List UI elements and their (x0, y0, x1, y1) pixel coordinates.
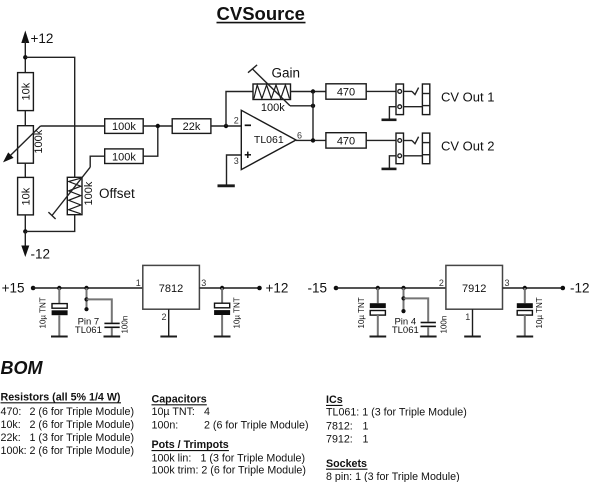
svg-text:3: 3 (234, 156, 239, 166)
capacitor C5 100n (404, 298, 449, 336)
resistor 10k (top) (18, 73, 34, 111)
svg-text:100n:: 100n: (152, 419, 179, 431)
wire (143, 125, 172, 127)
svg-text:Resistors (all 5% 1/4 W): Resistors (all 5% 1/4 W) (1, 391, 121, 403)
svg-text:100k: 100k (83, 181, 95, 205)
wire op-amp output (296, 139, 326, 141)
svg-text:8 pin: 1 (3 for Triple Module): 8 pin: 1 (3 for Triple Module) (326, 471, 460, 482)
svg-text:7912:: 7912: (326, 433, 353, 445)
svg-text:10µ TNT:: 10µ TNT: (152, 406, 195, 418)
svg-text:100n: 100n (121, 316, 130, 334)
svg-text:1: 1 (136, 278, 141, 288)
jack CV Out 1 (382, 84, 495, 120)
node junction C3 (220, 286, 224, 290)
BOM capacitors column (152, 393, 309, 431)
svg-text:CV Out 1: CV Out 1 (441, 90, 494, 105)
svg-text:+15: +15 (2, 281, 25, 296)
svg-text:10µ TNT: 10µ TNT (357, 297, 366, 328)
svg-text:2 (6 for Triple Module): 2 (6 for Triple Module) (30, 445, 135, 457)
svg-text:6: 6 (297, 130, 302, 140)
svg-text:BOM: BOM (1, 358, 44, 378)
resistor 10k (bottom) (18, 177, 34, 215)
svg-text:2 (6 for Triple Module): 2 (6 for Triple Module) (204, 419, 309, 431)
svg-text:22k: 22k (183, 121, 201, 133)
resistor 100k #1 (105, 119, 144, 134)
node wiper junction (311, 104, 315, 108)
svg-text:1 (3 for Triple Module): 1 (3 for Triple Module) (201, 452, 306, 464)
resistor 470 #2 (326, 133, 366, 148)
wire pin 4 stub (403, 288, 405, 311)
wire 22k to op-amp (211, 125, 241, 127)
svg-text:TL061: TL061 (392, 325, 419, 336)
wire (24, 111, 26, 126)
svg-text:1: 1 (465, 312, 470, 322)
svg-text:TL061: TL061 (75, 325, 102, 336)
potentiometer 100k (CV set) (3, 126, 45, 164)
svg-text:100k lin:: 100k lin: (152, 452, 192, 464)
svg-text:TL061: 1 (3 for Triple Module): TL061: 1 (3 for Triple Module) (326, 406, 467, 418)
BOM ICs column (326, 394, 467, 445)
resistor 22k (172, 119, 211, 134)
wire pin 7 stub (86, 288, 88, 309)
svg-text:2 (6 for Triple Module): 2 (6 for Triple Module) (30, 419, 135, 431)
svg-text:3: 3 (201, 278, 206, 288)
svg-text:2: 2 (234, 115, 239, 125)
capacitor C1 10u TNT (39, 288, 68, 337)
svg-text:10k: 10k (20, 82, 32, 100)
regulator 7912 (439, 265, 510, 336)
wire -15 rail (336, 287, 446, 289)
wire +15 rail (33, 287, 143, 289)
svg-text:100k: 100k (33, 129, 45, 153)
wire trimmer wiper to 100k #2 (90, 156, 105, 167)
wire feedback riser (226, 92, 253, 127)
svg-text:2 (6 for Triple Module): 2 (6 for Triple Module) (30, 406, 135, 418)
svg-text:22k:: 22k: (1, 432, 21, 444)
node -12 terminal (561, 286, 566, 291)
node junction C4 (376, 286, 380, 290)
capacitor C3 10u TNT (214, 288, 242, 337)
svg-text:10µ TNT: 10µ TNT (535, 297, 544, 328)
wire (24, 215, 26, 232)
svg-text:7912: 7912 (462, 283, 486, 295)
svg-text:470: 470 (337, 135, 355, 147)
svg-text:-12: -12 (31, 247, 51, 262)
capacitor C4 10u TNT (357, 288, 386, 337)
node +12 terminal (257, 286, 262, 291)
svg-text:2: 2 (161, 312, 166, 322)
BOM pots column (152, 439, 306, 476)
svg-text:1: 1 (363, 420, 369, 432)
wire 470 #1 to jack 1 (366, 90, 396, 92)
svg-text:TL061: TL061 (254, 134, 284, 146)
svg-text:CVSource: CVSource (217, 3, 305, 24)
svg-text:470:: 470: (1, 406, 22, 418)
svg-text:3: 3 (505, 278, 510, 288)
wire 470 #2 to jack 2 (366, 139, 396, 141)
svg-text:2: 2 (439, 278, 444, 288)
svg-text:Sockets: Sockets (326, 458, 367, 470)
ground op-amp pin 3 (218, 184, 235, 187)
wire non-inverting input to ground (227, 155, 242, 186)
node top junction (23, 55, 27, 59)
node junction pin4 stub (401, 286, 405, 290)
svg-text:100k: 100k (112, 121, 136, 133)
svg-text:ICs: ICs (326, 394, 343, 406)
svg-text:1 (3 for Triple Module): 1 (3 for Triple Module) (30, 432, 135, 444)
wire output riser (312, 92, 314, 141)
svg-text:10µ TNT: 10µ TNT (39, 297, 48, 328)
node summing junction (156, 124, 160, 128)
svg-text:100k:: 100k: (1, 445, 27, 457)
svg-text:Pots / Trimpots: Pots / Trimpots (152, 439, 229, 451)
svg-text:1: 1 (363, 433, 369, 445)
wire bottom branch from trimmer (25, 215, 74, 232)
svg-text:100k: 100k (112, 151, 136, 163)
svg-text:+12: +12 (31, 31, 54, 46)
wire (24, 163, 26, 177)
title CVSource (217, 3, 306, 24)
svg-text:Capacitors: Capacitors (152, 393, 207, 405)
svg-text:100k trim: 2 (6 for Triple Mod: 100k trim: 2 (6 for Triple Module) (152, 465, 306, 477)
svg-text:-15: -15 (308, 281, 328, 296)
svg-text:-12: -12 (570, 281, 590, 296)
wire 100k #2 to summing node (143, 126, 158, 156)
node inverting input junction (224, 124, 228, 128)
node feedback top junction (311, 89, 315, 93)
resistor 100k #2 (105, 149, 144, 164)
svg-text:10µ TNT: 10µ TNT (232, 297, 241, 328)
node junction C6 (523, 286, 527, 290)
jack CV Out 2 (382, 133, 495, 169)
svg-text:100k: 100k (261, 102, 285, 114)
regulator 7812 (136, 265, 207, 336)
wire gain right terminal to 470 #1 (291, 91, 326, 93)
wire pot wiper to 100k resistor (41, 125, 105, 127)
svg-text:+12: +12 (266, 281, 289, 296)
node output junction (311, 138, 315, 142)
svg-text:10k:: 10k: (1, 419, 21, 431)
capacitor C6 10u TNT (517, 288, 545, 337)
svg-text:10k: 10k (20, 187, 32, 205)
svg-text:7812: 7812 (159, 283, 183, 295)
BOM sockets column (326, 458, 460, 482)
svg-text:Gain: Gain (272, 65, 301, 80)
+12 power arrow (21, 31, 53, 73)
wire top branch to offset trimmer (25, 57, 74, 177)
svg-text:Offset: Offset (99, 186, 135, 201)
wire +12 rail (199, 287, 259, 289)
node junction C1 (57, 286, 61, 290)
potentiometer Gain 100k (248, 65, 300, 114)
BOM resistors column (1, 391, 135, 457)
capacitor C2 100n (87, 299, 130, 336)
wire -12 rail (503, 287, 563, 289)
svg-text:CV Out 2: CV Out 2 (441, 139, 494, 154)
svg-text:100n: 100n (440, 316, 449, 334)
wire gain wiper to output (290, 105, 313, 107)
svg-text:470: 470 (337, 87, 355, 99)
-12 power arrow (21, 231, 50, 261)
resistor 470 #1 (326, 84, 366, 99)
svg-text:4: 4 (204, 406, 210, 418)
svg-text:7812:: 7812: (326, 420, 353, 432)
node junction pin7 stub (84, 286, 88, 290)
trimmer Offset 100k (48, 167, 135, 219)
node bottom junction (23, 229, 27, 233)
op-amp U1 TL061 (234, 110, 302, 169)
